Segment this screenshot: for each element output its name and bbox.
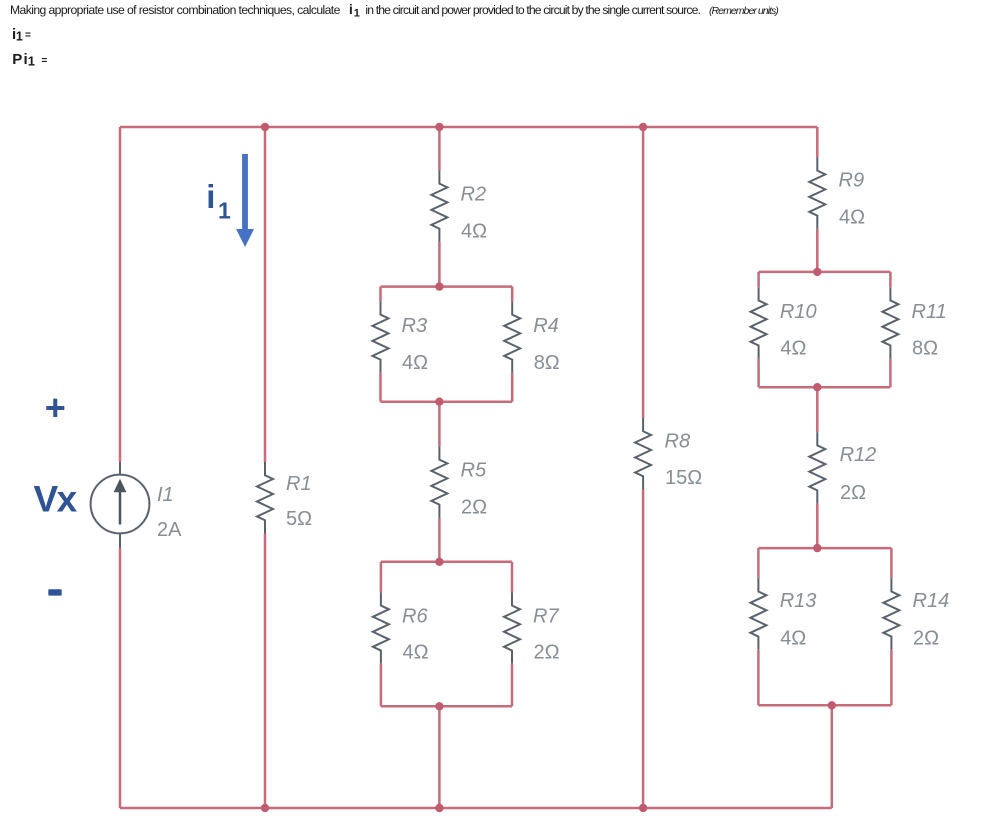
svg-text:R1: R1 xyxy=(286,473,312,495)
svg-text:Vx: Vx xyxy=(34,479,78,520)
svg-text:R5: R5 xyxy=(461,459,487,481)
svg-text:R6: R6 xyxy=(402,605,428,627)
svg-text:2Ω: 2Ω xyxy=(461,497,487,519)
svg-text:4Ω: 4Ω xyxy=(402,352,428,374)
svg-text:=: = xyxy=(42,56,48,67)
svg-text:R7: R7 xyxy=(533,605,559,627)
svg-text:8Ω: 8Ω xyxy=(534,352,560,374)
svg-text:R3: R3 xyxy=(402,315,428,337)
svg-text:R13: R13 xyxy=(780,590,817,612)
svg-text:R8: R8 xyxy=(665,431,691,453)
svg-text:15Ω: 15Ω xyxy=(665,467,702,489)
svg-text:+: + xyxy=(45,387,66,428)
svg-text:P: P xyxy=(12,51,22,68)
svg-text:4Ω: 4Ω xyxy=(839,207,865,229)
svg-text:i: i xyxy=(206,178,215,215)
svg-text:in the circuit and power provi: in the circuit and power provided to the… xyxy=(365,3,700,17)
svg-text:I1: I1 xyxy=(157,484,174,506)
svg-text:i: i xyxy=(349,2,353,17)
svg-text:2Ω: 2Ω xyxy=(913,627,939,649)
svg-text:4Ω: 4Ω xyxy=(403,642,429,664)
svg-text:1: 1 xyxy=(16,29,23,43)
svg-text:R14: R14 xyxy=(913,590,950,612)
svg-text:1: 1 xyxy=(354,8,360,20)
svg-text:5Ω: 5Ω xyxy=(286,508,312,530)
svg-text:4Ω: 4Ω xyxy=(780,337,806,359)
svg-text:2Ω: 2Ω xyxy=(534,642,560,664)
svg-text:2A: 2A xyxy=(157,519,182,541)
svg-text:8Ω: 8Ω xyxy=(912,337,938,359)
svg-text:R4: R4 xyxy=(533,315,559,337)
svg-text:1: 1 xyxy=(218,198,231,224)
svg-text:R12: R12 xyxy=(840,444,877,466)
svg-text:(Remember units): (Remember units) xyxy=(709,5,778,17)
svg-text:2Ω: 2Ω xyxy=(840,482,866,504)
svg-text:=: = xyxy=(25,30,31,41)
svg-text:4Ω: 4Ω xyxy=(461,221,487,243)
svg-text:R9: R9 xyxy=(839,170,865,192)
svg-text:4Ω: 4Ω xyxy=(780,627,806,649)
svg-text:R10: R10 xyxy=(780,301,817,323)
svg-text:R11: R11 xyxy=(912,301,947,323)
svg-text:R2: R2 xyxy=(461,183,487,205)
svg-text:Making appropriate use of resi: Making appropriate use of resistor combi… xyxy=(10,3,341,17)
svg-text:1: 1 xyxy=(28,54,35,69)
